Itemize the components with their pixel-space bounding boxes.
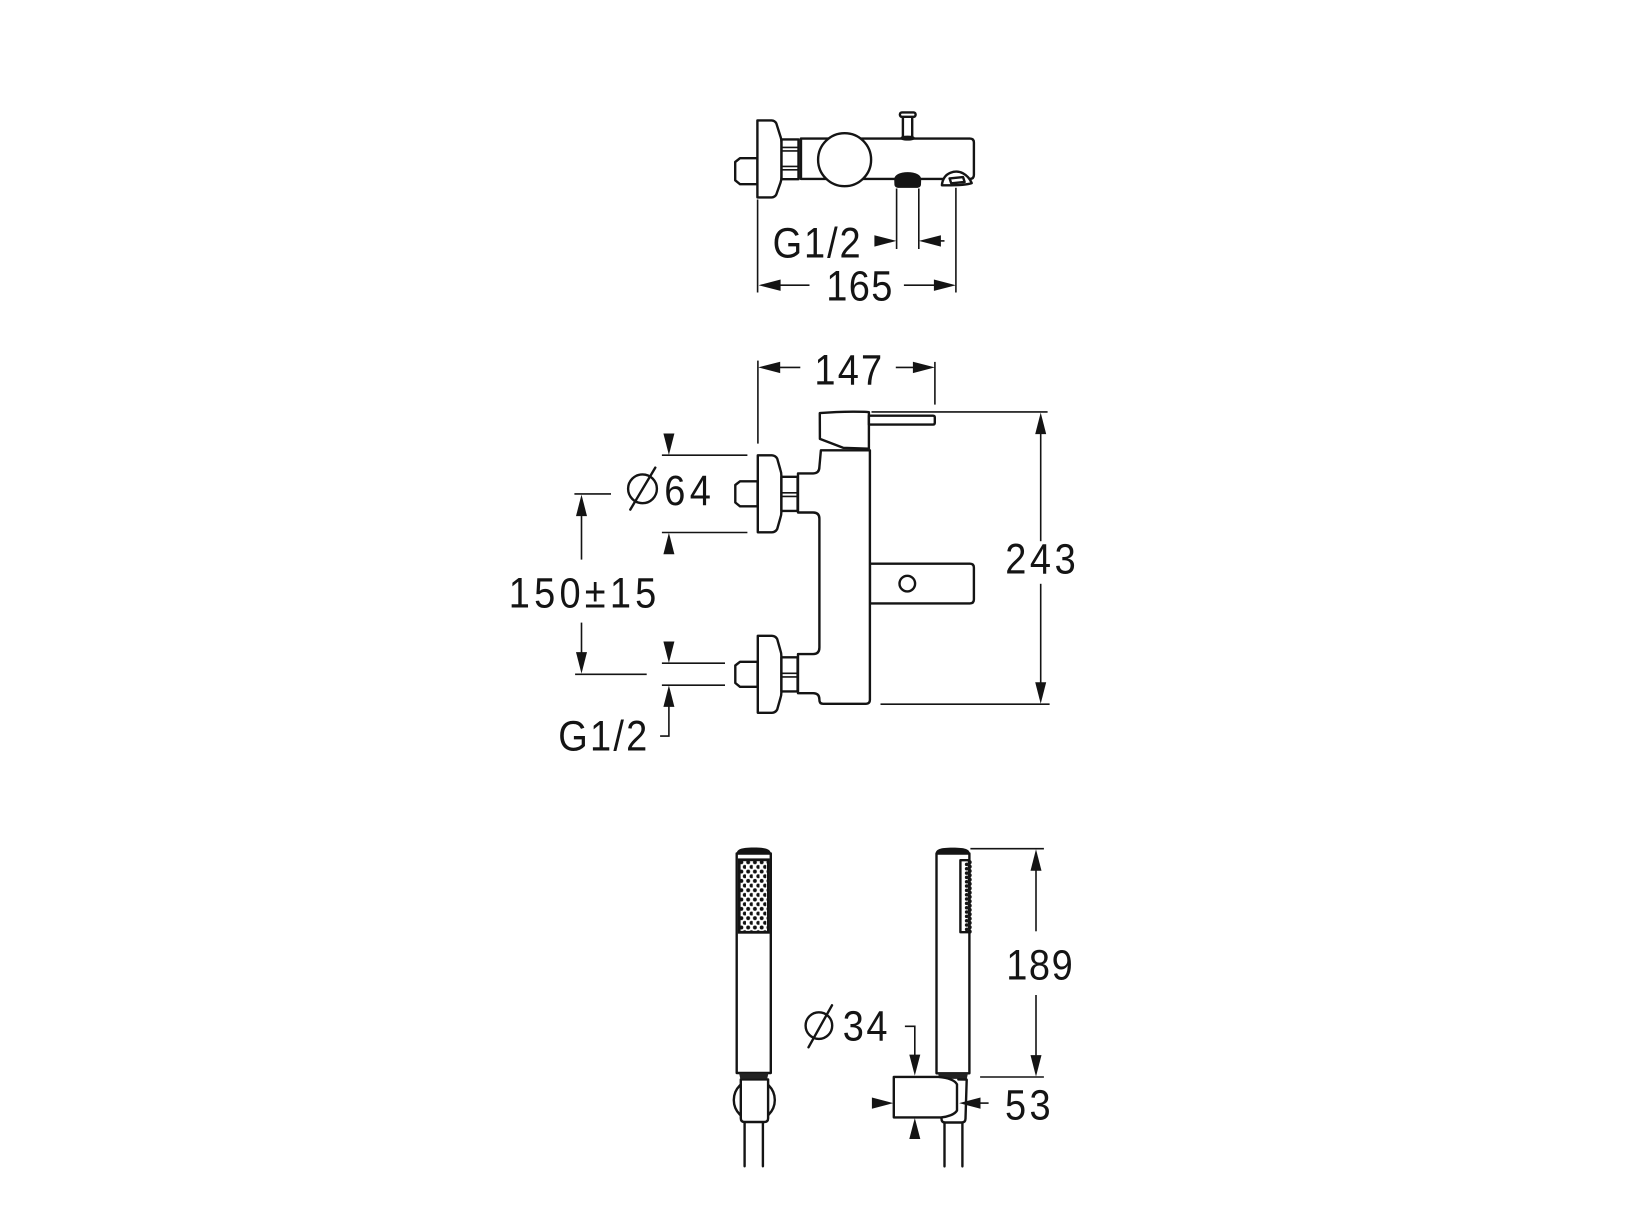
top view: 165 dim right extension line (955, 188, 957, 293)
top view: spout aerator housing (942, 172, 972, 186)
hand shower front: head cap (black) (737, 848, 771, 854)
middle view: 243 dimension line with arrows (1035, 413, 1046, 704)
svg-text:G1/2: G1/2 (773, 218, 863, 267)
middle view: upper nut mid lines (781, 493, 797, 497)
53 dim right-pointing arrow (872, 1098, 893, 1109)
hand shower front: hose (745, 1122, 763, 1166)
svg-text:150±15: 150±15 (509, 568, 661, 617)
top view: diverter outlet (black) (894, 172, 921, 188)
svg-text:165: 165 (826, 261, 894, 310)
middle view: upper union nipple (735, 481, 757, 506)
189 dim top extension line (970, 848, 1044, 850)
hand shower front: hose nut block (741, 1079, 768, 1122)
middle view: port G1/2 leader line (660, 706, 669, 736)
top view: union nut (782, 139, 799, 179)
189 dimension line with arrows (1031, 849, 1042, 1076)
middle view: lower union nipple (735, 662, 757, 687)
middle view: upper wall flange (758, 455, 782, 532)
middle view: spout screw hole (900, 576, 916, 592)
top view: wall union nipple (735, 158, 757, 184)
top view: diverter pin cap (900, 112, 916, 116)
middle view: dia64 bottom extension line (662, 532, 748, 534)
dia34 leader line (905, 1026, 915, 1056)
top view: G1/2 outlet extension line left (896, 189, 898, 250)
hand shower front: handle body (737, 854, 771, 1074)
middle view: port G1/2 lower extension line (662, 684, 725, 686)
middle view: 150pm15 upper tick (574, 493, 611, 495)
top view: diverter pin base ellipse (902, 137, 914, 140)
top view: wall flange (757, 120, 781, 197)
middle view: 147 left extension line (757, 361, 759, 444)
middle view: diameter symbol for 64 (628, 468, 657, 510)
middle view: 150pm15 lower tick (575, 673, 647, 675)
hand shower side: hose (945, 1123, 963, 1167)
hand shower side: handle body (937, 854, 970, 1074)
hand shower front: cone nut (dark) (739, 1073, 768, 1079)
top view: control knob circle (818, 133, 871, 186)
svg-text:189: 189 (1006, 940, 1074, 989)
middle view: port G1/2 down arrow (663, 642, 674, 664)
middle view: lever arm (869, 416, 935, 425)
svg-text:64: 64 (664, 466, 715, 515)
svg-text:147: 147 (814, 346, 884, 395)
middle view: 243 bottom extension line (881, 703, 1050, 705)
top view: diverter pin stem (903, 117, 912, 138)
middle view: lower nut mid lines (781, 673, 797, 677)
svg-text:G1/2: G1/2 (558, 712, 649, 761)
top view: body washer line (800, 139, 802, 179)
middle view: 147 dimension line with arrows (758, 362, 935, 373)
top view: G1/2 arrow left-pointing (919, 235, 945, 246)
middle view: dia64 up arrow (663, 533, 674, 555)
svg-text:53: 53 (1005, 1080, 1054, 1129)
hand shower side: spray strip (960, 860, 969, 932)
svg-text:34: 34 (843, 1001, 890, 1050)
middle view: lower wall flange (758, 636, 782, 713)
hand shower side: cone nut (dark) (938, 1073, 968, 1079)
middle view: lower union nut (781, 657, 797, 691)
shower bracket: holder outer profile and foot (942, 1079, 967, 1122)
middle view: dia64 top extension line (662, 454, 748, 456)
middle view: cartridge cap (820, 412, 869, 449)
dia34 down arrow (909, 1055, 920, 1076)
top view: aerator slot (950, 177, 965, 183)
top view: 165 dimension line with arrows (759, 280, 956, 291)
top view: 165 dim left extension line (757, 200, 759, 293)
dia34 up arrow (909, 1118, 920, 1139)
top view: G1/2 arrow right-pointing (874, 235, 896, 246)
189 dim bottom extension line (980, 1076, 1044, 1078)
middle view: 243 top extension line (872, 411, 1048, 413)
middle view: 150pm15 dimension line with arrows (576, 495, 587, 674)
middle view: upper union nut (781, 477, 797, 511)
middle view: faucet body with port bosses (798, 450, 870, 704)
top view: mixer body bar (801, 139, 974, 179)
top view: union nut thread lines (782, 147, 799, 169)
shower bracket: main block with cradle (894, 1077, 957, 1118)
middle view: spout (870, 564, 974, 604)
middle view: 147 right extension line (934, 362, 936, 405)
hand shower front: spray face with nozzles (739, 860, 768, 933)
hand shower front: hose ball (734, 1080, 775, 1121)
top view: G1/2 outlet extension line right (918, 189, 920, 250)
53 dim left-pointing arrow (959, 1098, 989, 1109)
hand shower side: head cap (black) (936, 848, 970, 854)
middle view: port G1/2 up arrow (663, 685, 674, 707)
dia34 diameter symbol (806, 1005, 833, 1047)
middle view: dia64 down arrow (663, 434, 674, 456)
svg-text:243: 243 (1005, 534, 1079, 583)
middle view: port G1/2 upper extension line (662, 662, 725, 664)
